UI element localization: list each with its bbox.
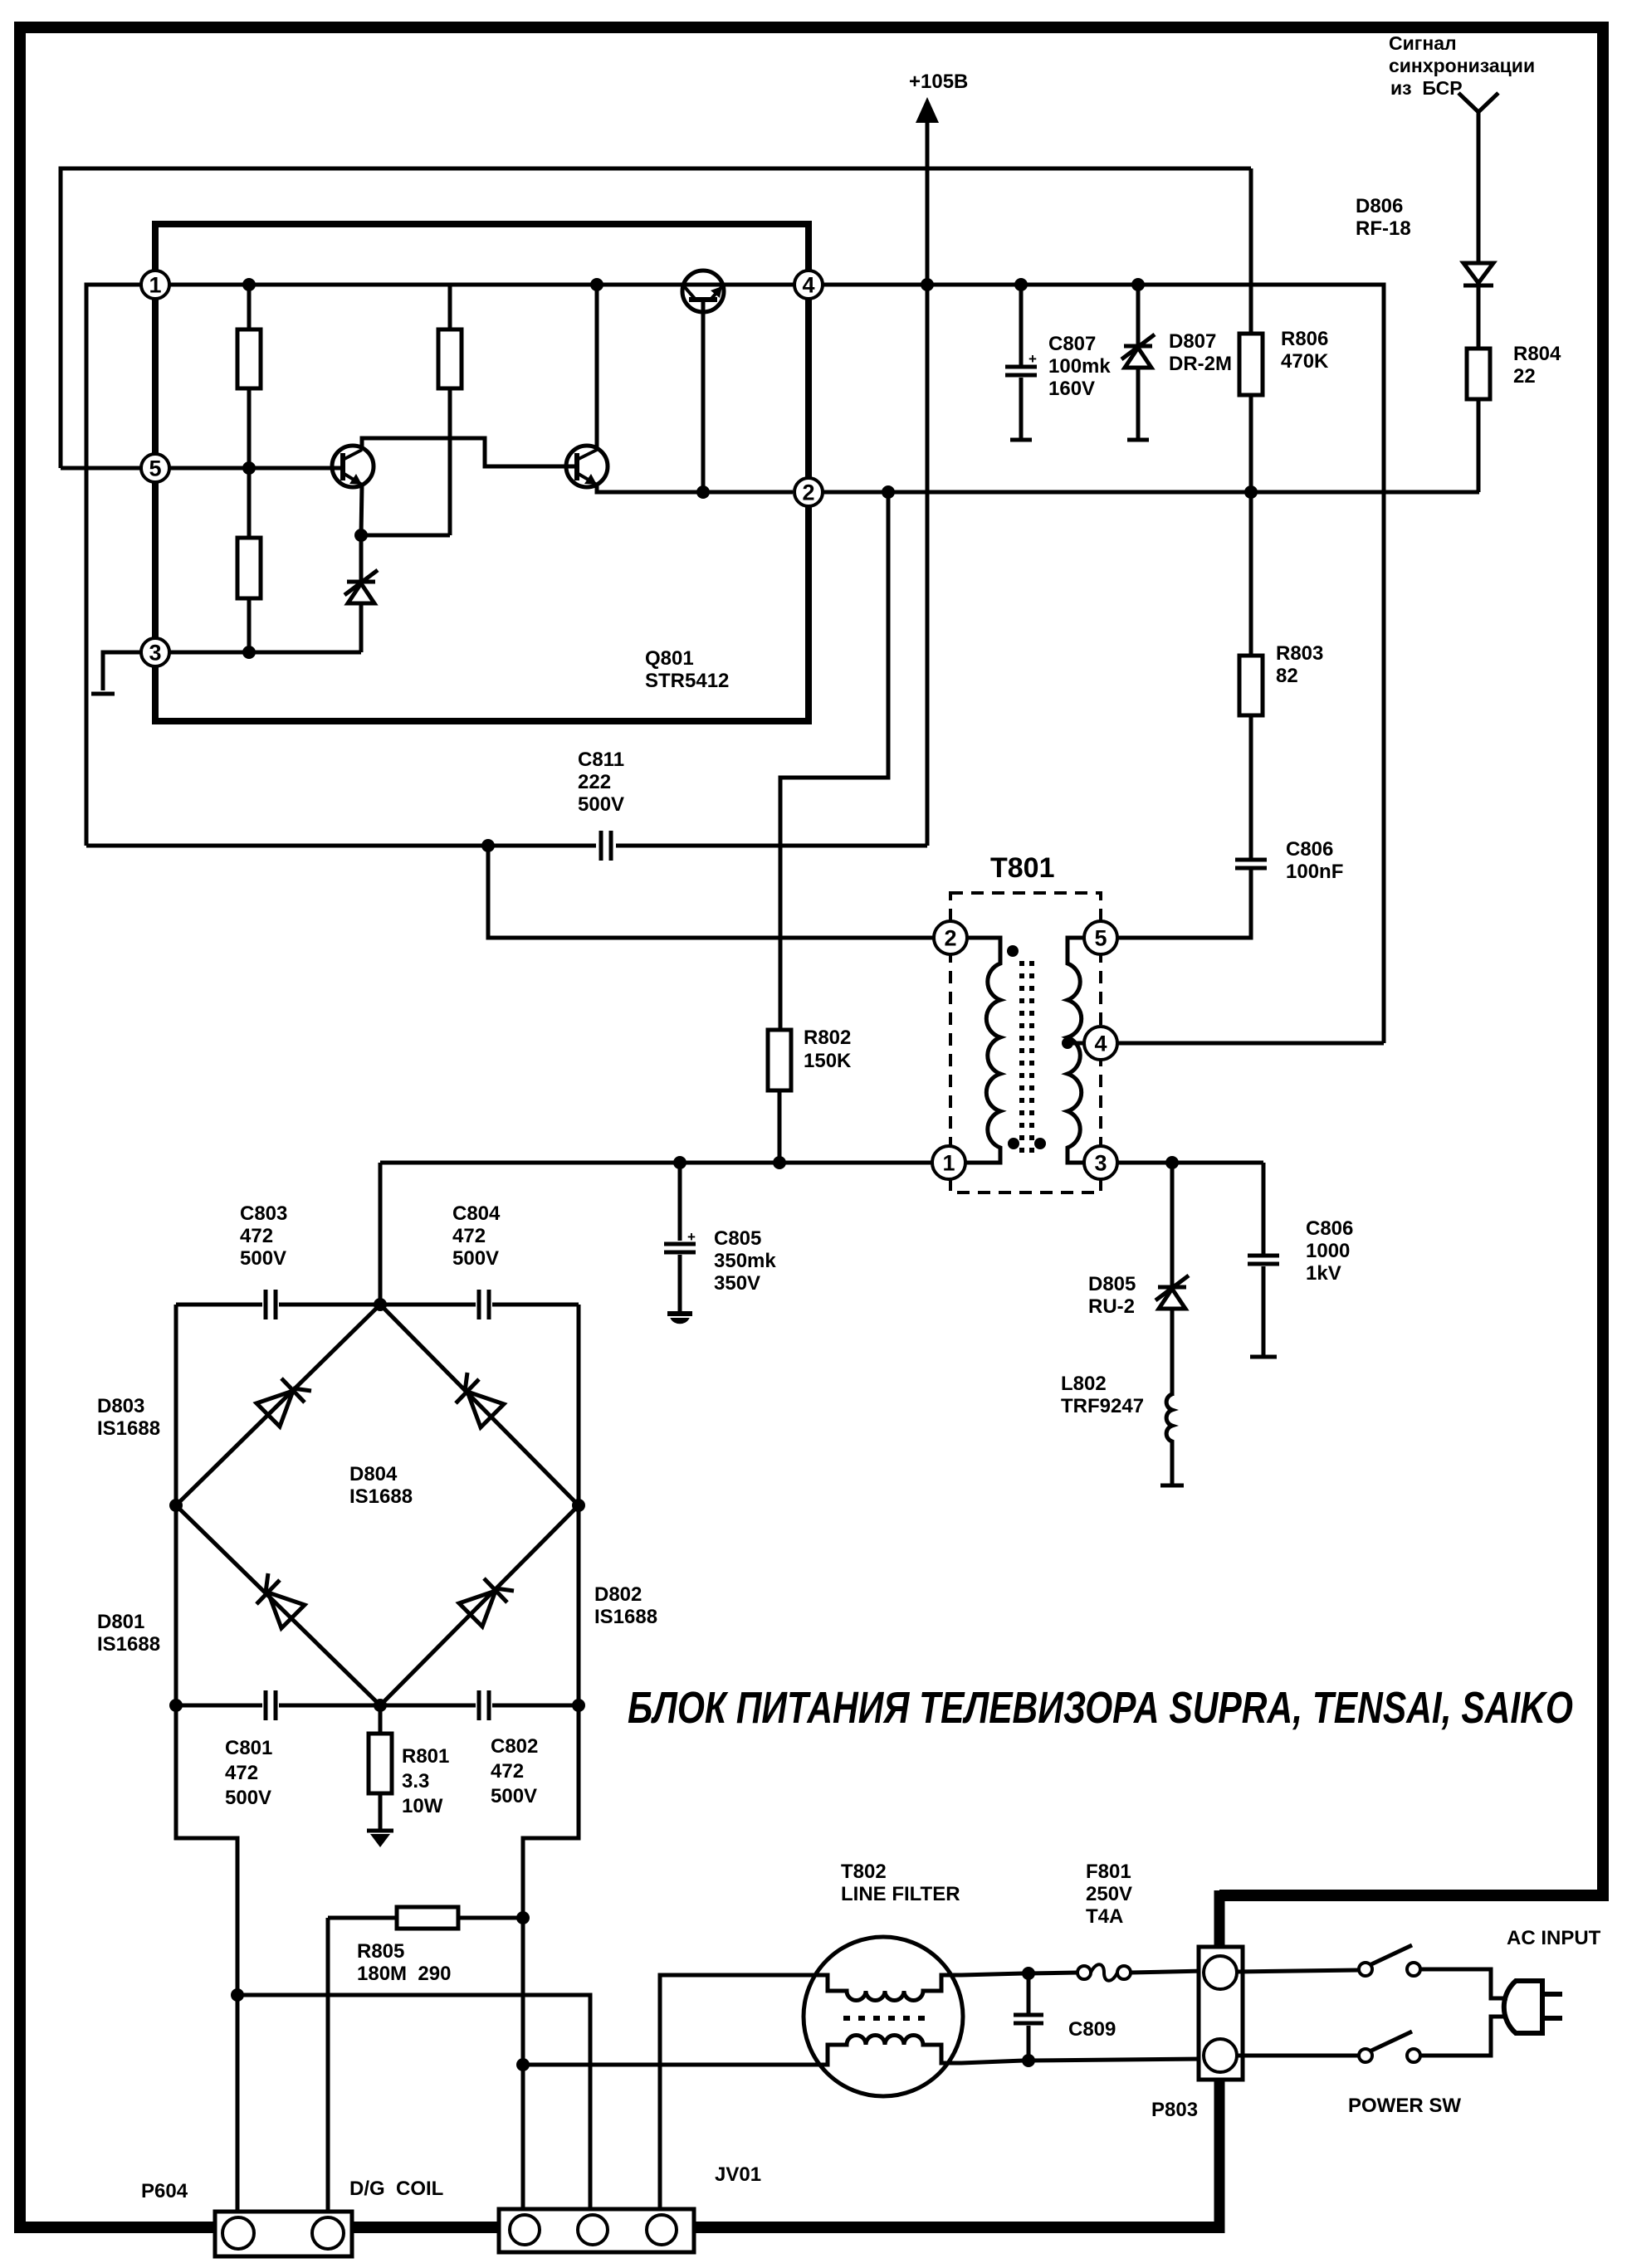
svg-text:STR5412: STR5412 <box>645 670 729 692</box>
pin 3 of Q801 <box>141 638 169 666</box>
svg-text:IS1688: IS1688 <box>97 1633 160 1656</box>
wire Q801 pin2 rail to R804 <box>823 490 1479 495</box>
resistor R803 82 <box>1249 492 1253 860</box>
svg-text:250V: 250V <box>1086 1883 1132 1905</box>
svg-text:C805: C805 <box>714 1227 761 1250</box>
svg-text:C806: C806 <box>1306 1217 1353 1240</box>
svg-text:C807: C807 <box>1048 333 1096 355</box>
wire T2 emitter to pin2 rail <box>597 485 793 492</box>
diode D804 IS1688 (upper right arm) <box>467 1392 504 1427</box>
resistor R802 150K <box>768 1030 791 1090</box>
node dot bridge left vertex <box>169 1499 183 1512</box>
wire pin4 to vertical drop <box>1117 1041 1384 1046</box>
svg-text:F801: F801 <box>1086 1861 1131 1883</box>
svg-text:82: 82 <box>1276 665 1298 687</box>
connector JV01 pin 1 <box>510 2215 540 2245</box>
AC plug body <box>1504 1981 1542 2033</box>
node dot pin1 rail / T2 collector <box>590 278 603 291</box>
svg-text:3: 3 <box>1094 1151 1107 1176</box>
capacitor C803 472 500V <box>264 1290 268 1319</box>
pin 2 of Q801 <box>794 478 823 506</box>
thick AC line top <box>1219 1890 1609 1901</box>
diode D802 IS1688 <box>459 1591 496 1627</box>
transformer T801 dashed outline <box>950 893 1101 1193</box>
svg-text:C802: C802 <box>491 1735 538 1758</box>
svg-text:JV01: JV01 <box>715 2163 761 2186</box>
svg-text:470K: 470K <box>1281 350 1329 373</box>
svg-text:D807: D807 <box>1169 330 1216 353</box>
svg-text:R803: R803 <box>1276 642 1323 665</box>
ground symbol C805 <box>667 1311 692 1316</box>
svg-text:500V: 500V <box>578 793 624 816</box>
zener diode D807 DR-2M <box>1136 285 1141 438</box>
node dot T802 bottom feed <box>516 2058 530 2071</box>
thick AC stub into P803 <box>1214 1890 1225 1947</box>
svg-text:160V: 160V <box>1048 378 1095 400</box>
resistor R806 470K <box>1249 168 1253 490</box>
svg-text:D806: D806 <box>1356 195 1403 217</box>
svg-text:C811: C811 <box>578 749 624 771</box>
wire R-b bottom to T1 emitter node <box>361 534 450 538</box>
node dot bottom rail right <box>572 1699 585 1712</box>
svg-text:POWER SW: POWER SW <box>1348 2095 1461 2117</box>
svg-text:100nF: 100nF <box>1286 861 1343 883</box>
wire bottom winding feed <box>523 2063 807 2067</box>
AC plug prongs <box>1541 1992 1562 1997</box>
svg-text:R806: R806 <box>1281 328 1328 350</box>
svg-text:3: 3 <box>149 641 161 666</box>
border frame left <box>14 22 26 2233</box>
svg-text:D/G COIL: D/G COIL <box>349 2178 443 2200</box>
svg-text:1000: 1000 <box>1306 1240 1350 1262</box>
capacitor C801 472 500V <box>264 1690 268 1720</box>
bridge right rail <box>523 1305 579 2216</box>
resistor R-a (upper left, internal) <box>247 285 252 468</box>
resistor R805 <box>328 1916 523 1920</box>
hybrid IC Q801 STR5412 outline <box>155 224 809 721</box>
resistor R804 22 <box>1467 349 1490 399</box>
svg-text:T4A: T4A <box>1086 1905 1123 1928</box>
wire R805 left leg down to P604 pin2 <box>326 1918 330 2216</box>
svg-text:Сигнал: Сигнал <box>1389 32 1457 54</box>
connector P803 body <box>1199 1947 1243 2080</box>
svg-text:C809: C809 <box>1068 2018 1116 2041</box>
node dot bottom rail left <box>169 1699 183 1712</box>
node dot pin5 rail / R-a <box>242 461 256 475</box>
connector JV01 body <box>499 2209 694 2252</box>
svg-text:4: 4 <box>1094 1032 1107 1056</box>
node dot bridge bottom vertex <box>374 1699 387 1712</box>
node dot bridge top vertex <box>374 1298 387 1311</box>
node dot C811 rail branch <box>481 839 495 852</box>
svg-text:222: 222 <box>578 771 611 793</box>
diode D801 IS1688 <box>268 1592 305 1628</box>
resistor R-c (lower left, internal) <box>247 468 252 652</box>
wire Q801 pin5 internal rail <box>155 466 343 471</box>
svg-text:D803: D803 <box>97 1395 144 1417</box>
node dot bridge right vertex <box>572 1499 585 1512</box>
wire upper switch to plug <box>1420 1969 1507 1998</box>
connector JV01 pin 3 <box>647 2215 677 2245</box>
svg-text:C804: C804 <box>452 1202 501 1225</box>
wire degauss rail to JV01 pin2 <box>237 1995 590 2216</box>
svg-text:350mk: 350mk <box>714 1250 776 1272</box>
svg-text:R801: R801 <box>402 1745 449 1768</box>
connector JV01 pin 2 <box>578 2215 608 2245</box>
transistor T2 (driver, internal) <box>566 446 608 487</box>
wire T2 collector to pin1 rail <box>595 285 599 450</box>
node dot pin1 rail / R-a <box>242 278 256 291</box>
bridge bottom rail with C801 C802 <box>176 1704 579 1708</box>
power switch lower <box>1237 2054 1359 2058</box>
svg-text:100mk: 100mk <box>1048 355 1111 378</box>
transistor T3 (power switch, internal) <box>682 271 724 312</box>
node dot pin2 rail / R806 <box>1244 485 1258 499</box>
svg-text:+: + <box>687 1229 696 1245</box>
svg-text:472: 472 <box>491 1760 524 1783</box>
phase dot primary bottom <box>1008 1138 1019 1149</box>
node dot pin3 / D805 <box>1165 1156 1179 1169</box>
wire top feedback loop <box>61 168 1251 468</box>
svg-text:2: 2 <box>802 480 814 505</box>
wire P803 pin1 to power switch <box>1237 1970 1359 1972</box>
svg-text:22: 22 <box>1513 365 1536 388</box>
svg-text:2: 2 <box>944 926 956 951</box>
pin 4 of Q801 <box>794 271 823 299</box>
transistor T1 (error amp, internal) <box>332 446 374 487</box>
thick AC line below P803 <box>1214 2079 1225 2233</box>
wire T3 stem down to pin2 rail <box>701 300 706 492</box>
svg-text:P803: P803 <box>1151 2099 1198 2121</box>
svg-text:P604: P604 <box>141 2180 188 2202</box>
svg-text:10W: 10W <box>402 1795 443 1817</box>
wire T801 pin1 rail (primary bottom) <box>380 1161 932 1165</box>
svg-text:LINE FILTER: LINE FILTER <box>841 1883 960 1905</box>
node dot C809 bottom <box>1022 2054 1035 2067</box>
bridge diagonal upper-left <box>176 1305 380 1505</box>
wire lower winding to P803 <box>1028 2059 1204 2061</box>
wire pin5 from left rail <box>61 466 155 471</box>
diode D806 RF-18 <box>1463 263 1493 283</box>
T802 core dashed line <box>843 2016 925 2021</box>
node dot C809 top <box>1022 1967 1035 1980</box>
node dot T3 stem / pin2 rail <box>696 485 710 499</box>
svg-text:150K: 150K <box>804 1050 852 1072</box>
svg-text:500V: 500V <box>491 1785 537 1807</box>
bridge diagonal lower-right <box>380 1505 579 1705</box>
svg-text:1kV: 1kV <box>1306 1262 1341 1285</box>
inductor L802 TRF9247 <box>1166 1394 1172 1484</box>
connector P604 pin 2 <box>312 2217 344 2249</box>
ground symbol R801 <box>367 1829 393 1833</box>
wire T1 collector up and over to T2 base <box>362 438 577 466</box>
+105V supply arrow <box>926 119 930 285</box>
phase dot primary <box>1007 945 1019 957</box>
svg-text:T802: T802 <box>841 1861 887 1883</box>
fuse F801 250V T4A <box>1028 1971 1204 1973</box>
capacitor C809 <box>1027 1973 1031 2061</box>
svg-text:500V: 500V <box>240 1247 286 1270</box>
node dot pin3 rail / R-c <box>242 646 256 659</box>
T801 core dashed lines <box>1019 961 1024 1158</box>
connector P604 pin 1 <box>222 2217 254 2249</box>
capacitor C807 100mk 160V (electrolytic) <box>1019 285 1024 438</box>
svg-text:AC INPUT: AC INPUT <box>1507 1927 1601 1949</box>
node dot +105V / pin4 rail <box>921 278 934 291</box>
bridge diagonal lower-left <box>176 1505 380 1705</box>
connector P803 pin 1 <box>1204 1956 1237 1989</box>
diode D803 IS1688 <box>257 1391 293 1427</box>
svg-text:IS1688: IS1688 <box>97 1417 160 1440</box>
bridge left rail <box>176 1305 237 2216</box>
capacitor C811 222 500V <box>599 831 603 861</box>
T802 lower winding <box>807 2036 1024 2066</box>
svg-text:IS1688: IS1688 <box>349 1485 413 1508</box>
capacitor C806 1000 1kV <box>1262 1163 1266 1355</box>
node dot R805 right / bridge rail <box>516 1911 530 1924</box>
pin 3 of T801 <box>1084 1146 1117 1179</box>
svg-text:180M 290: 180M 290 <box>357 1963 451 1985</box>
resistor R-b (upper middle, internal) <box>448 285 452 535</box>
svg-text:1: 1 <box>149 273 161 298</box>
resistor R801 3.3 10W <box>379 1705 383 1829</box>
svg-text:+105В: +105В <box>909 71 968 93</box>
svg-text:5: 5 <box>149 456 161 481</box>
thick bottom bus <box>14 2222 1224 2233</box>
svg-text:из БСР: из БСР <box>1390 77 1463 99</box>
line filter T802 circle <box>804 1937 963 2096</box>
svg-text:RU-2: RU-2 <box>1088 1295 1135 1318</box>
svg-text:4: 4 <box>802 273 814 298</box>
capacitor C802 472 500V <box>477 1690 481 1720</box>
antenna symbol sync input <box>1458 93 1498 263</box>
node dot C805 tap <box>673 1156 686 1169</box>
wire +105V line down to C811 rail <box>926 285 930 846</box>
svg-text:R804: R804 <box>1513 343 1561 365</box>
wire pin2 net jog to R802 <box>780 492 888 1030</box>
pin 1 of Q801 <box>141 271 169 299</box>
svg-text:472: 472 <box>452 1225 486 1247</box>
phase dot secondary bottom <box>1034 1138 1046 1149</box>
node dot R-b / T1 collector net <box>354 529 368 542</box>
phase dot secondary tap pin4 <box>1062 1037 1073 1049</box>
svg-text:DR-2M: DR-2M <box>1169 353 1232 375</box>
wire Q801 pin3 internal rail <box>155 651 361 655</box>
svg-text:3.3: 3.3 <box>402 1770 429 1792</box>
wire Q801 pin1 internal rail <box>155 283 809 287</box>
connector P604 body <box>215 2212 352 2256</box>
pin 5 of Q801 <box>141 454 169 482</box>
pin 1 of T801 <box>932 1146 965 1179</box>
svg-text:+: + <box>1028 351 1037 367</box>
node dot D807 / pin4 rail <box>1131 278 1145 291</box>
arrow T3 emitter <box>711 286 722 298</box>
svg-text:синхронизации: синхронизации <box>1389 55 1535 76</box>
svg-text:TRF9247: TRF9247 <box>1061 1395 1144 1417</box>
wire T801 pin3 output <box>1116 1161 1263 1165</box>
wire pin4 rail to transformer drop <box>823 285 1384 1043</box>
T802 upper winding <box>807 1973 1024 2001</box>
node dot R802 / pin1 wire <box>773 1156 786 1169</box>
pin 4 of T801 <box>1084 1027 1117 1060</box>
svg-text:500V: 500V <box>452 1247 499 1270</box>
node dot degauss rail left <box>231 1988 244 2002</box>
capacitor C806 100nF <box>1235 858 1267 862</box>
svg-text:500V: 500V <box>225 1787 271 1809</box>
border frame top <box>14 22 1609 33</box>
wire T1 emitter down to zener node <box>361 485 362 535</box>
svg-text:C806: C806 <box>1286 838 1333 861</box>
svg-text:RF-18: RF-18 <box>1356 217 1411 240</box>
diode D805 RU-2 <box>1170 1163 1175 1396</box>
arrow T2 emitter <box>584 474 597 485</box>
wire pin1 to left rail <box>86 285 155 846</box>
border frame right <box>1597 22 1609 1895</box>
svg-text:БЛОК ПИТАНИЯ ТЕЛЕВИЗОРА SUPRA,: БЛОК ПИТАНИЯ ТЕЛЕВИЗОРА SUPRA, TENSAI, S… <box>628 1683 1573 1733</box>
svg-text:R805: R805 <box>357 1940 404 1963</box>
svg-text:350V: 350V <box>714 1272 760 1295</box>
arrow T1 emitter <box>349 474 362 485</box>
bridge diagonal upper-right <box>380 1305 579 1505</box>
node dot pin2 rail left <box>882 485 895 499</box>
pin 2 of T801 <box>934 921 967 954</box>
svg-text:Q801: Q801 <box>645 647 694 670</box>
svg-text:D805: D805 <box>1088 1273 1136 1295</box>
svg-text:IS1688: IS1688 <box>594 1606 657 1628</box>
bridge top rail with C803 C804 <box>176 1303 579 1307</box>
wire pin1 rail corner down to bridge top node <box>379 1163 383 1305</box>
svg-text:472: 472 <box>225 1762 258 1784</box>
svg-text:D802: D802 <box>594 1583 642 1606</box>
pin 5 of T801 <box>1084 921 1117 954</box>
svg-text:5: 5 <box>1094 926 1107 951</box>
ground stub at pin 3 <box>103 652 155 690</box>
wire branch down to T801 pin 2 <box>488 846 934 938</box>
svg-text:C803: C803 <box>240 1202 287 1225</box>
svg-text:L802: L802 <box>1061 1373 1107 1395</box>
capacitor C805 350mk 350V (electrolytic) <box>678 1163 682 1312</box>
node dot C807 / pin4 rail <box>1014 278 1028 291</box>
wire lower switch to plug <box>1420 2017 1507 2056</box>
capacitor C804 472 500V <box>477 1290 481 1319</box>
svg-text:1: 1 <box>942 1151 955 1176</box>
svg-text:R802: R802 <box>804 1027 851 1049</box>
wire top winding feed to JV01 pin3 <box>660 1975 807 2216</box>
zener diode Z1 (internal reference) <box>359 535 364 652</box>
svg-text:D804: D804 <box>349 1463 398 1485</box>
svg-text:C801: C801 <box>225 1737 272 1759</box>
T801 primary winding <box>964 938 1000 1163</box>
wire C811 rail <box>86 844 927 848</box>
connector P803 pin 2 <box>1204 2039 1237 2072</box>
svg-text:T801: T801 <box>990 852 1055 884</box>
svg-text:472: 472 <box>240 1225 273 1247</box>
svg-text:D801: D801 <box>97 1611 144 1633</box>
power switch upper <box>1359 1963 1372 1976</box>
T801 secondary winding <box>1068 938 1086 1163</box>
wire secondary tap to pin 4 <box>1068 1041 1086 1046</box>
